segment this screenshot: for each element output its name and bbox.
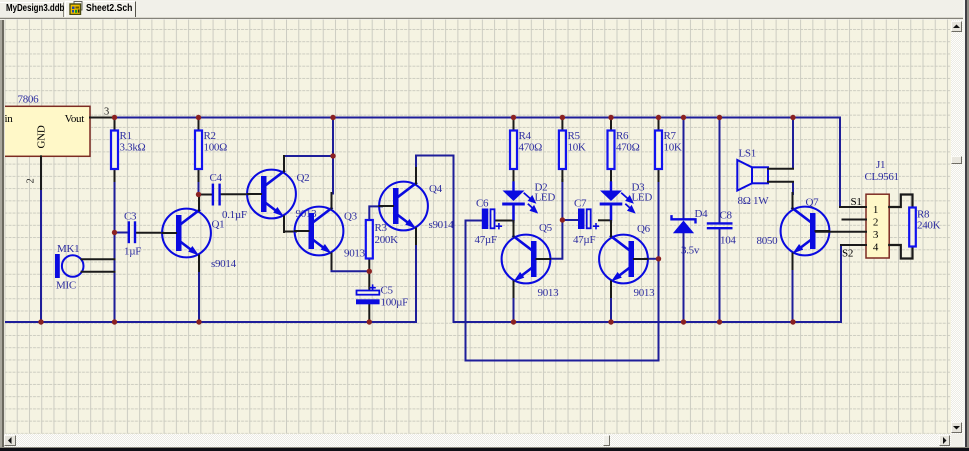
- svg-text:MK1: MK1: [57, 243, 79, 255]
- capacitor C3: [124, 211, 141, 258]
- wire top power rail: [115, 117, 841, 119]
- junction D4 bottom at rail: [681, 319, 686, 324]
- transistor Q3 9013: [295, 193, 366, 269]
- separator under tabs: [0, 17, 969, 18]
- pin 1 (S1): [840, 206, 866, 208]
- wire Q2 collector elbow: [284, 155, 333, 157]
- svg-text:S2: S2: [842, 248, 853, 260]
- regulator 7806: [0, 94, 115, 190]
- svg-text:Q2: Q2: [297, 172, 310, 184]
- junction C4 node: [196, 192, 201, 197]
- resistor R1: [111, 118, 146, 182]
- resistor R2: [195, 118, 227, 182]
- svg-text:D4: D4: [695, 208, 709, 220]
- wire rail node down to Q2 collector node and Q3 collector: [332, 118, 334, 194]
- svg-text:9013: 9013: [538, 287, 560, 299]
- wire Q2 emitter to Q3 base: [284, 231, 296, 233]
- junction Q5 emitter at rail: [511, 319, 516, 324]
- transistor Q2 9013: [247, 156, 317, 232]
- wire C5 node to C5 top plate: [368, 271, 370, 290]
- svg-text:R7: R7: [664, 130, 677, 142]
- LED D3: [600, 182, 653, 220]
- svg-text:3: 3: [104, 107, 109, 118]
- wire bottom-left ground rail: [5, 244, 416, 322]
- LED D2: [502, 182, 555, 220]
- junction C8 top: [717, 115, 722, 120]
- svg-text:1: 1: [873, 204, 878, 216]
- svg-text:10K: 10K: [664, 142, 682, 154]
- svg-text:C6: C6: [476, 198, 489, 210]
- svg-text:240K: 240K: [917, 220, 941, 232]
- resistor R5: [559, 118, 586, 182]
- svg-text:R2: R2: [204, 130, 216, 142]
- junction C3 node: [112, 230, 117, 235]
- wire cross-couple loop C6 to Q6 base / R7: [466, 180, 659, 361]
- junction LS1 top: [790, 115, 795, 120]
- svg-text:J1: J1: [876, 159, 885, 171]
- transistor Q4 s9014: [379, 168, 454, 244]
- junction C8 bottom at rail: [717, 319, 722, 324]
- svg-text:R5: R5: [568, 130, 581, 142]
- zener diode D4 3.5v: [672, 208, 709, 257]
- svg-text:C7: C7: [574, 198, 587, 210]
- svg-text:0.1µF: 0.1µF: [222, 209, 247, 221]
- wire Q6 base elbow to loop: [645, 258, 659, 260]
- svg-text:47µF: 47µF: [573, 234, 595, 246]
- svg-text:4: 4: [873, 242, 879, 254]
- tab icon (schematic doc): [69, 1, 83, 15]
- wire C6 left plate to cross-couple loop: [466, 220, 482, 222]
- pin 3 to Q7 base: [816, 231, 866, 233]
- junction D4 top: [681, 115, 686, 120]
- svg-text:Vin: Vin: [0, 113, 13, 125]
- speaker LS1: [737, 148, 793, 208]
- wire C5 bottom plate to rail: [368, 304, 370, 322]
- junction R4 top: [511, 115, 516, 120]
- wire Q6 emitter to rail: [610, 296, 612, 322]
- wire top rail drop to J1 pin S1: [839, 118, 841, 208]
- wire Q3 emitter to C5/R3 node: [332, 269, 370, 271]
- svg-text:Q5: Q5: [539, 222, 553, 234]
- svg-text:470Ω: 470Ω: [519, 142, 543, 154]
- svg-text:100µF: 100µF: [381, 297, 409, 309]
- left border strip: [0, 20, 2, 450]
- tab bar: [0, 0, 969, 17]
- pin 2: [843, 219, 867, 221]
- wire C3 right plate to Q1 base: [136, 232, 163, 234]
- wire R2 bottom to C4 node: [198, 180, 200, 195]
- junction 7806 pin2 at rail: [38, 319, 43, 324]
- svg-text:1µF: 1µF: [124, 246, 141, 258]
- svg-text:Q7: Q7: [806, 197, 820, 209]
- capacitor C4: [210, 172, 247, 221]
- svg-text:7806: 7806: [18, 94, 40, 106]
- wire C7 right plate to Q6 collector line: [599, 219, 611, 221]
- wire Q5 emitter to rail: [513, 296, 515, 322]
- svg-text:LED: LED: [535, 192, 556, 204]
- wire R3 bottom to C5 node: [368, 260, 370, 272]
- svg-text:104: 104: [720, 235, 736, 247]
- svg-text:Q3: Q3: [344, 211, 358, 223]
- svg-text:8Ω 1W: 8Ω 1W: [738, 195, 770, 207]
- junction R5 top: [560, 115, 565, 120]
- svg-text:C8: C8: [720, 210, 733, 222]
- microphone MK1: [55, 243, 115, 292]
- svg-text:GND: GND: [36, 125, 48, 148]
- wire LED D3 cathode to Q6 collector node: [610, 207, 612, 222]
- junction Q6 emitter at rail: [608, 319, 613, 324]
- junction Q2/Q3 rail top: [330, 115, 335, 120]
- svg-text:LED: LED: [632, 192, 653, 204]
- capacitor C5 (electrolytic): [356, 285, 408, 309]
- svg-text:C5: C5: [381, 285, 394, 297]
- svg-text:9013: 9013: [634, 287, 656, 299]
- wire C6 right plate to Q5 collector line: [495, 220, 514, 222]
- transistor Q6 9013 (mirrored): [599, 221, 655, 299]
- junction R1 line at rail: [112, 319, 117, 324]
- wire C8 bottom to rail: [719, 229, 721, 322]
- svg-text:9013: 9013: [344, 248, 366, 260]
- svg-text:LS1: LS1: [739, 148, 756, 160]
- junction C7 left node: [560, 217, 565, 222]
- svg-text:3: 3: [873, 229, 879, 241]
- svg-text:CL9561: CL9561: [865, 171, 899, 183]
- wire rail to D4 top: [683, 118, 685, 219]
- vertical scrollbar: [951, 20, 964, 435]
- svg-text:200K: 200K: [375, 234, 399, 246]
- pin 4 (S2): [841, 244, 866, 246]
- wire J1 pin1 bridge to R8 top: [889, 195, 912, 209]
- svg-text:10K: 10K: [568, 142, 586, 154]
- wire C3 node to C3 left plate: [115, 232, 129, 234]
- svg-text:Vout: Vout: [65, 113, 85, 125]
- svg-text:s9014: s9014: [429, 219, 455, 231]
- wire LED D2 cathode to Q5 collector node: [512, 207, 514, 222]
- svg-text:S1: S1: [851, 196, 862, 208]
- capacitor C8: [708, 210, 736, 247]
- junction R2 top: [196, 115, 201, 120]
- svg-text:2: 2: [873, 216, 878, 228]
- junction C5 at rail: [367, 319, 372, 324]
- svg-text:3.3kΩ: 3.3kΩ: [120, 142, 146, 154]
- svg-text:MIC: MIC: [56, 280, 76, 292]
- wire R4 bottom to LED D2: [513, 180, 515, 191]
- wire R6 bottom to LED D3: [610, 180, 612, 191]
- resistor R7: [655, 118, 682, 182]
- wire C4 right plate to Q2 base: [221, 193, 248, 195]
- junction R1 top: [112, 115, 117, 120]
- svg-text:C4: C4: [210, 172, 223, 184]
- resistor R4: [510, 118, 542, 182]
- wire R5 bottom to C7 node down to Q5 base: [552, 180, 562, 259]
- svg-text:Q4: Q4: [429, 183, 443, 195]
- transistor Q5 9013 (mirrored): [502, 221, 560, 299]
- junction R3/C5 node: [367, 269, 372, 274]
- resistor R6: [608, 118, 640, 182]
- wire Q4 emitter to rail corner: [415, 244, 417, 322]
- horizontal scrollbar: [4, 434, 951, 447]
- transistor Q7 8050 (mirrored): [757, 193, 830, 269]
- pin 2 of 7806: [40, 156, 42, 189]
- resistor R3: [366, 220, 398, 259]
- wire J1 pin4 bridge to R8 bottom: [889, 245, 912, 259]
- junction Q1 emitter at rail: [196, 319, 201, 324]
- svg-text:470Ω: 470Ω: [616, 142, 640, 154]
- wire D4 bottom to rail: [683, 233, 685, 323]
- bottom border: [0, 447, 969, 448]
- wire LS1 lower terminal down to Q7 collector: [792, 182, 794, 194]
- svg-text:Q1: Q1: [212, 219, 225, 231]
- wire Q4 collector loop down to right rail: [416, 156, 841, 323]
- svg-text:R4: R4: [519, 130, 532, 142]
- tab MyDesign3.ddb: [0, 2, 64, 17]
- wire Q7 emitter to rail: [792, 269, 794, 322]
- pin 3 of 7806: [90, 117, 115, 119]
- wire R3 top to Q4 base: [369, 206, 382, 219]
- junction R7 top: [656, 115, 661, 120]
- resistor R8: [909, 208, 940, 247]
- connector J1 CL9561: [816, 159, 913, 260]
- junction Q6 base node: [656, 256, 661, 261]
- wire C7 node to C7 left plate: [562, 219, 578, 221]
- capacitor C7 (electrolytic 47uF): [573, 198, 598, 247]
- svg-text:47µF: 47µF: [475, 234, 497, 246]
- svg-text:3.5v: 3.5v: [681, 245, 700, 257]
- tab Sheet2.Sch (selected): [65, 1, 136, 17]
- svg-text:R6: R6: [616, 130, 629, 142]
- wire rail down to LS1 upper terminal: [792, 118, 794, 169]
- svg-text:100Ω: 100Ω: [204, 142, 228, 154]
- wire Q1 emitter to rail: [198, 270, 200, 322]
- right border: [963, 0, 965, 451]
- capacitor C6 (electrolytic 47uF): [475, 198, 502, 247]
- junction Q7 emitter at rail: [790, 319, 795, 324]
- svg-text:2: 2: [26, 178, 37, 183]
- svg-text:C3: C3: [124, 211, 137, 223]
- svg-text:8050: 8050: [757, 235, 779, 247]
- transistor Q1 s9014: [162, 195, 236, 271]
- junction Q2 collector: [330, 153, 335, 158]
- wire R1 bottom to C3 node to MIC to rail: [114, 180, 116, 322]
- svg-text:R1: R1: [120, 130, 132, 142]
- svg-text:Q6: Q6: [637, 223, 651, 235]
- wire rail to C8 top: [719, 118, 721, 223]
- wire 7806 pin2 down to rail: [40, 188, 42, 322]
- svg-text:s9014: s9014: [211, 258, 237, 270]
- junction R6 top: [608, 115, 613, 120]
- wire C4 node to C4 left plate: [199, 194, 213, 196]
